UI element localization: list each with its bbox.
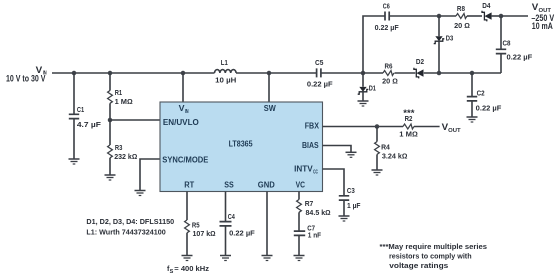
ground D1: [358, 101, 369, 106]
svg-text:D3: D3: [446, 33, 454, 42]
ground C2: [467, 117, 478, 122]
svg-text:R8: R8: [457, 4, 465, 13]
svg-text:4.7 µF: 4.7 µF: [77, 120, 102, 129]
svg-text:L1: Wurth 74437324100: L1: Wurth 74437324100: [86, 228, 165, 237]
svg-text:V: V: [442, 122, 449, 132]
svg-text:SW: SW: [264, 104, 276, 113]
node VOUT (FBX): [442, 122, 462, 134]
ground R3: [105, 175, 116, 180]
wire BIAS: [323, 146, 352, 153]
ground RT: [182, 256, 193, 261]
svg-text:S: S: [170, 269, 174, 275]
capacitor C7: [294, 224, 322, 256]
wire VIN rail: [52, 72, 363, 74]
svg-text:0.22 µF: 0.22 µF: [507, 53, 533, 62]
resistor R1: [108, 73, 133, 120]
svg-text:C2: C2: [477, 89, 485, 98]
wire RT pin: [186, 192, 188, 221]
capacitor C8: [496, 16, 533, 73]
svg-text:1 nF: 1 nF: [308, 231, 322, 240]
svg-text:= 400 kHz: = 400 kHz: [174, 264, 209, 273]
wire riser to top rail: [363, 16, 385, 73]
svg-text:GND: GND: [258, 181, 275, 190]
svg-text:voltage ratings: voltage ratings: [389, 261, 448, 270]
junction node R1: [108, 71, 113, 76]
wire EN/UVLO: [110, 119, 160, 121]
capacitor C5: [307, 58, 333, 88]
wire INTVcc: [323, 169, 345, 196]
svg-text:R3: R3: [115, 143, 123, 152]
svg-text:0.22 µF: 0.22 µF: [307, 79, 333, 88]
svg-text:INTV: INTV: [294, 165, 313, 174]
svg-text:20 Ω: 20 Ω: [382, 77, 398, 86]
diode D3: [434, 16, 454, 73]
svg-text:D1: D1: [369, 84, 376, 93]
svg-text:L1: L1: [221, 58, 228, 67]
svg-text:C8: C8: [503, 39, 511, 48]
svg-text:1 MΩ: 1 MΩ: [115, 97, 133, 106]
capacitor C3: [339, 186, 361, 216]
svg-text:BIAS: BIAS: [302, 141, 319, 150]
ground SS: [220, 256, 231, 261]
wire to VOUT: [501, 15, 528, 17]
note switching frequency: [167, 264, 209, 275]
ground R4: [372, 170, 383, 175]
wire SS pin: [225, 192, 227, 222]
resistor R6: [382, 62, 398, 86]
svg-text:0.22 µF: 0.22 µF: [375, 23, 400, 32]
diode D4: [482, 1, 501, 22]
svg-text:0.22 µF: 0.22 µF: [476, 104, 502, 113]
resistor R4: [375, 127, 408, 171]
svg-text:EN/UVLO: EN/UVLO: [163, 118, 199, 127]
resistor R5: [185, 220, 216, 256]
wire SYNC/MODE: [140, 159, 160, 191]
inductor L1: [215, 58, 237, 84]
diode D2: [414, 57, 424, 79]
svg-text:R6: R6: [385, 62, 393, 71]
capacitor C4: [220, 212, 256, 256]
junction node C1: [72, 71, 77, 76]
svg-text:10 V to 30 V: 10 V to 30 V: [6, 74, 46, 84]
resistor R8: [454, 4, 482, 30]
wire lower rail: [363, 72, 501, 74]
svg-text:C1: C1: [77, 105, 84, 114]
junction node VIN pin: [181, 71, 186, 76]
svg-text:LT8365: LT8365: [229, 140, 253, 149]
wire VIN pin: [182, 73, 184, 102]
junction node D3 bottom: [437, 71, 442, 76]
junction node VOUT top: [499, 14, 504, 19]
svg-text:R2: R2: [405, 114, 413, 123]
junction node D3 top: [437, 14, 442, 19]
note parts list: [86, 217, 174, 237]
svg-text:0.22 µF: 0.22 µF: [229, 229, 255, 238]
junction node EN: [108, 118, 113, 123]
svg-text:1 µF: 1 µF: [347, 201, 361, 210]
junction node SW: [267, 71, 272, 76]
svg-text:R7: R7: [305, 199, 314, 208]
svg-text:V: V: [532, 2, 539, 12]
svg-text:D4: D4: [482, 1, 490, 10]
svg-text:resistors to comply with: resistors to comply with: [389, 252, 472, 261]
svg-text:C3: C3: [347, 186, 355, 195]
ground C3: [339, 216, 350, 221]
svg-text:SYNC/MODE: SYNC/MODE: [162, 156, 209, 165]
svg-text:C5: C5: [315, 58, 323, 67]
resistor R3: [108, 120, 138, 175]
capacitor C6: [375, 2, 456, 33]
ground C1: [69, 159, 80, 164]
capacitor C1: [69, 73, 102, 159]
svg-text:10 mA: 10 mA: [532, 21, 553, 31]
svg-text:R4: R4: [381, 143, 390, 152]
svg-text:20 Ω: 20 Ω: [454, 21, 470, 30]
wire GND pin: [266, 192, 268, 256]
resistor R7: [297, 199, 331, 231]
svg-text:SS: SS: [224, 181, 234, 190]
svg-text:D1, D2, D3, D4: DFLS1150: D1, D2, D3, D4: DFLS1150: [86, 217, 174, 226]
ground VC: [294, 256, 305, 261]
svg-text:232 kΩ: 232 kΩ: [114, 152, 137, 161]
node VIN label: [6, 65, 47, 84]
IC U1 LT8365: [160, 102, 323, 192]
junction node C5-D1: [361, 71, 366, 76]
ground SYNC: [135, 191, 146, 196]
node VOUT- label: [531, 2, 554, 31]
svg-text:84.5 kΩ: 84.5 kΩ: [306, 208, 331, 217]
wire SW pin: [268, 73, 270, 102]
svg-text:CC: CC: [313, 170, 318, 176]
svg-text:1 MΩ: 1 MΩ: [399, 130, 418, 139]
note voltage rating: [380, 242, 488, 270]
wire VC pin: [298, 192, 300, 200]
svg-text:VC: VC: [296, 181, 306, 190]
svg-text:10 µH: 10 µH: [215, 75, 236, 84]
ground BIAS: [346, 152, 357, 157]
svg-text:107 kΩ: 107 kΩ: [193, 229, 216, 238]
svg-text:FBX: FBX: [305, 122, 320, 131]
junction node C2: [470, 71, 475, 76]
svg-text:3.24 kΩ: 3.24 kΩ: [382, 151, 408, 160]
svg-text:C4: C4: [228, 212, 235, 221]
diode D1: [358, 73, 376, 101]
svg-text:C6: C6: [383, 2, 390, 11]
resistor R2: [399, 114, 418, 138]
svg-text:OUT: OUT: [448, 128, 461, 134]
capacitor C2: [467, 73, 502, 117]
wire FBX: [323, 126, 440, 128]
svg-text:***May require multiple series: ***May require multiple series: [380, 242, 488, 251]
svg-text:RT: RT: [184, 181, 194, 190]
svg-text:D2: D2: [416, 57, 424, 66]
svg-text:IN: IN: [185, 109, 189, 115]
junction node FBX/R4: [375, 124, 380, 129]
ground GND: [262, 256, 273, 261]
